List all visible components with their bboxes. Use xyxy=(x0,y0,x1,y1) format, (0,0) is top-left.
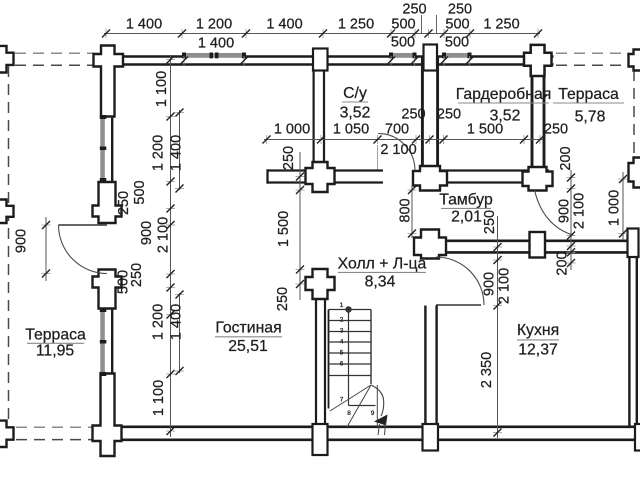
svg-text:2 100: 2 100 xyxy=(155,217,171,253)
dimension chain living-hall opening 1500 xyxy=(299,152,301,300)
svg-text:1 250: 1 250 xyxy=(338,17,374,33)
svg-text:1 500: 1 500 xyxy=(276,211,292,247)
wire right-terrace right dashed boundary xyxy=(633,70,635,158)
svg-text:500: 500 xyxy=(115,270,131,294)
dimension chain right terrace 1000 xyxy=(622,172,624,240)
svg-text:250: 250 xyxy=(437,106,461,122)
svg-text:11,95: 11,95 xyxy=(36,343,75,360)
window edge ticks on top wall xyxy=(183,56,185,65)
post right wall at bottom wall xyxy=(635,424,640,451)
svg-text:9: 9 xyxy=(371,410,375,417)
dimension chain terrace door 900 xyxy=(45,217,47,281)
svg-text:500: 500 xyxy=(445,17,469,33)
svg-text:900: 900 xyxy=(481,272,497,296)
post tambour-right wall at hall wall xyxy=(530,232,546,258)
post right wall top stub xyxy=(628,229,639,258)
window left wall upper 1400 xyxy=(100,118,105,180)
dimension chain left windows 1400 xyxy=(179,110,181,190)
svg-text:6: 6 xyxy=(340,361,344,368)
svg-text:5: 5 xyxy=(340,350,344,357)
wall tambour left / C/y right xyxy=(421,57,424,170)
post tambour-right wall at stub wall xyxy=(523,167,553,191)
svg-text:800: 800 xyxy=(397,198,413,222)
post stub wall at C/y-left wall xyxy=(306,162,335,192)
svg-text:250: 250 xyxy=(482,210,498,234)
svg-text:1 400: 1 400 xyxy=(168,304,184,340)
svg-text:900: 900 xyxy=(13,229,29,253)
svg-text:250: 250 xyxy=(402,1,426,17)
svg-text:1 200: 1 200 xyxy=(150,304,166,340)
svg-text:500: 500 xyxy=(391,34,415,50)
staircase winder lines and direction arrow xyxy=(330,385,371,411)
post terrace left-edge middle xyxy=(0,200,14,224)
svg-text:С/у: С/у xyxy=(343,85,367,102)
svg-text:1 400: 1 400 xyxy=(198,35,234,51)
wall stairs left xyxy=(315,271,317,426)
post terrace right-edge middle xyxy=(629,158,640,188)
svg-text:1 200: 1 200 xyxy=(196,17,232,33)
post left wall door top xyxy=(93,182,122,223)
svg-text:1 400: 1 400 xyxy=(126,17,162,33)
svg-text:2 350: 2 350 xyxy=(479,352,495,388)
svg-text:2 100: 2 100 xyxy=(496,268,512,304)
svg-text:4: 4 xyxy=(340,339,344,346)
window left wall lower 1400 xyxy=(100,311,105,374)
svg-text:3,52: 3,52 xyxy=(340,105,371,122)
svg-text:1 400: 1 400 xyxy=(266,17,302,33)
dimension chain left vertical (living room) xyxy=(170,55,172,437)
door tambour entrance (900) swing arc xyxy=(535,190,575,236)
post top wall at C/y-left wall xyxy=(313,49,328,71)
post tambour-left wall at stub wall xyxy=(413,166,447,191)
svg-text:200: 200 xyxy=(554,251,570,275)
post top-left corner xyxy=(94,46,124,117)
dimension chain kitchen vertical (250/900/2350) xyxy=(497,216,499,438)
svg-text:7: 7 xyxy=(340,397,344,404)
svg-text:1 000: 1 000 xyxy=(274,121,310,137)
svg-text:1 400: 1 400 xyxy=(168,135,184,171)
wall kitchen left xyxy=(424,306,426,428)
dimension chain middle horizontal (1000/1050/700/1500) xyxy=(264,139,543,141)
wire left-terrace left dashed boundary xyxy=(8,66,10,420)
door terrace-living room (900), leaf and swing arc xyxy=(59,224,108,226)
svg-text:250: 250 xyxy=(401,106,425,122)
post kitchen-left wall at bottom wall xyxy=(423,424,439,451)
svg-text:Гардеробная: Гардеробная xyxy=(456,86,552,103)
svg-text:1 200: 1 200 xyxy=(150,135,166,171)
svg-text:700: 700 xyxy=(385,121,409,137)
window top wall 1400 (living room) xyxy=(185,53,244,58)
svg-text:25,51: 25,51 xyxy=(228,338,268,355)
svg-text:900: 900 xyxy=(139,221,155,245)
wall left exterior (west) xyxy=(101,66,103,117)
svg-text:Терраса: Терраса xyxy=(25,327,86,344)
post stairs wall top xyxy=(306,269,335,299)
svg-text:250: 250 xyxy=(281,146,297,170)
post left wall door bottom xyxy=(93,270,122,309)
svg-text:8: 8 xyxy=(347,410,351,417)
svg-text:2,01: 2,01 xyxy=(451,209,482,226)
door hall-kitchen (900), leaf and swing arc xyxy=(436,304,481,306)
svg-text:Гостиная: Гостиная xyxy=(215,320,281,337)
svg-text:250: 250 xyxy=(544,121,568,137)
post top-right corner xyxy=(524,45,552,76)
svg-text:1 000: 1 000 xyxy=(606,190,622,226)
window top wall 500 (wardrobe) xyxy=(445,53,470,58)
post top wall at tambour-left wall xyxy=(424,45,438,71)
svg-text:900: 900 xyxy=(556,199,572,223)
wall hall/kitchen top (horizontal interior) xyxy=(425,240,638,243)
post tambour-left wall at hall wall xyxy=(414,230,446,259)
wall top exterior (north), line segments with window gaps xyxy=(96,55,184,58)
svg-text:1: 1 xyxy=(340,302,344,309)
svg-text:1 100: 1 100 xyxy=(154,71,170,107)
wall right exterior (east) xyxy=(628,241,630,427)
wall bottom exterior (south) xyxy=(95,425,640,428)
dimension chain tambour door 800 xyxy=(411,184,413,238)
post terrace left-edge bottom xyxy=(0,421,14,447)
svg-text:12,37: 12,37 xyxy=(518,342,558,359)
svg-text:500: 500 xyxy=(391,17,415,33)
svg-text:Кухня: Кухня xyxy=(517,322,559,339)
post bottom-left corner xyxy=(93,374,122,457)
svg-text:Тамбур: Тамбур xyxy=(439,192,493,209)
svg-text:2 100: 2 100 xyxy=(380,142,416,158)
svg-text:Холл + Л-ца: Холл + Л-ца xyxy=(338,256,427,273)
svg-text:1 050: 1 050 xyxy=(333,121,369,137)
staircase treads and flight xyxy=(328,310,330,409)
svg-text:1 250: 1 250 xyxy=(483,17,519,33)
door C/y (700), swing arc and extension xyxy=(377,145,379,170)
svg-text:1 100: 1 100 xyxy=(151,380,167,416)
wire left-terrace bottom dashed boundary xyxy=(16,426,95,428)
svg-text:250: 250 xyxy=(275,287,291,311)
svg-text:250: 250 xyxy=(116,191,132,215)
svg-text:Терраса: Терраса xyxy=(558,86,619,103)
wall stub + C/y bottom (horizontal interior) xyxy=(268,169,384,171)
svg-text:200: 200 xyxy=(558,146,574,170)
svg-text:500: 500 xyxy=(132,180,148,204)
svg-text:8,34: 8,34 xyxy=(365,274,396,291)
svg-text:250: 250 xyxy=(448,1,472,17)
wire right-terrace top dashed boundary xyxy=(556,52,629,54)
wall C/y left (between living room and bathroom) xyxy=(313,57,315,176)
post terrace right-edge top xyxy=(629,50,640,71)
wall tambour right / wardrobe right xyxy=(531,57,534,170)
svg-text:2 100: 2 100 xyxy=(571,193,587,229)
window top wall 500 (C/y) xyxy=(392,53,415,58)
svg-text:3: 3 xyxy=(340,328,344,335)
dimension chain top (north wall) xyxy=(104,33,540,35)
svg-text:500: 500 xyxy=(445,34,469,50)
svg-text:2: 2 xyxy=(340,317,344,324)
svg-text:5,78: 5,78 xyxy=(575,109,606,126)
svg-text:3,52: 3,52 xyxy=(490,108,521,125)
wire left-terrace top dashed boundary xyxy=(15,52,95,54)
post stairs wall at bottom wall xyxy=(313,424,328,455)
dimension chain tambour entrance 900/200 xyxy=(570,170,572,270)
post terrace left-edge top xyxy=(0,46,14,73)
